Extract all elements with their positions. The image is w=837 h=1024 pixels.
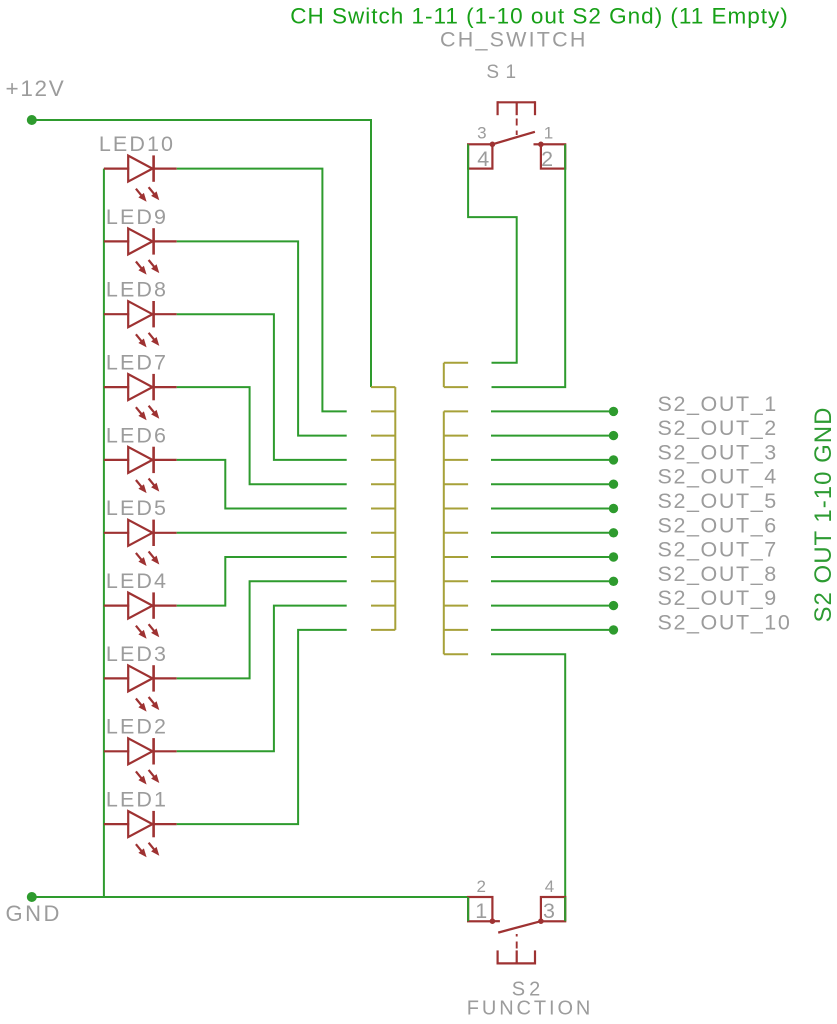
LED 4 (diode symbol with light arrows) bbox=[104, 604, 129, 606]
svg-text:LED3: LED3 bbox=[106, 642, 168, 666]
switch S1 pole dot left (pin 3/4) bbox=[490, 142, 496, 148]
svg-text:S2_OUT_1: S2_OUT_1 bbox=[658, 392, 778, 416]
LED 5 (diode symbol with light arrows) bbox=[104, 532, 129, 534]
svg-text:S2_OUT_3: S2_OUT_3 bbox=[658, 440, 778, 464]
svg-text:1: 1 bbox=[475, 899, 487, 923]
switch S1 pin box 1/2 (right) bbox=[541, 144, 565, 168]
wire S2_OUT_6 from switch contact bbox=[491, 532, 614, 534]
wire +12V rail to switch contact 11 (top) bbox=[32, 120, 371, 387]
switch S2 pole dot left (pin 2/1) bbox=[490, 918, 496, 924]
wire S2_OUT_9 from switch contact bbox=[491, 605, 614, 607]
wire LED2 cathode to switch contact 9 bbox=[177, 606, 347, 752]
wire S2_OUT_1 from switch contact bbox=[491, 410, 614, 412]
svg-text:FUNCTION: FUNCTION bbox=[467, 998, 594, 1020]
svg-text:CH_SWITCH: CH_SWITCH bbox=[440, 27, 588, 51]
wire S2_OUT_8 from switch contact bbox=[491, 580, 614, 582]
svg-text:4: 4 bbox=[477, 147, 489, 171]
switch S2 actuator dashed link bbox=[516, 934, 518, 949]
svg-text:LED1: LED1 bbox=[106, 788, 168, 812]
svg-text:S2_OUT_10: S2_OUT_10 bbox=[658, 610, 792, 634]
svg-text:GND: GND bbox=[6, 901, 62, 926]
switch S2 pin box 2/1 (left) bbox=[468, 897, 492, 921]
svg-text:3: 3 bbox=[477, 124, 486, 143]
node S2_OUT_2 (net endpoint dot) bbox=[609, 431, 618, 440]
svg-text:S2_OUT_8: S2_OUT_8 bbox=[658, 562, 778, 586]
svg-text:LED4: LED4 bbox=[106, 569, 168, 593]
node S2_OUT_5 (net endpoint dot) bbox=[609, 504, 618, 513]
wire LED4 cathode to switch contact 7 bbox=[177, 557, 347, 606]
connector/contact comb left (rotary switch side A, pins 11x) bbox=[371, 386, 395, 388]
switch S1 lever (movable contact) bbox=[492, 132, 535, 145]
wire LED5 cathode to switch contact 6 bbox=[177, 532, 347, 534]
switch S1 pin box 3/4 (left) bbox=[468, 144, 492, 168]
wire S1 pin 4 to switch common pole A bbox=[468, 144, 517, 362]
node S2_OUT_3 (net endpoint dot) bbox=[609, 455, 618, 464]
wire GND net overlay on S2 pin-1 box left edge bbox=[467, 897, 469, 921]
wire LED8 cathode to switch contact 3 bbox=[177, 314, 347, 460]
wire S2_OUT_3 from switch contact bbox=[491, 459, 614, 461]
wire GND bus for LED anodes (vertical) bbox=[103, 169, 105, 897]
svg-text:LED8: LED8 bbox=[106, 278, 168, 302]
node S2_OUT_6 (net endpoint dot) bbox=[609, 528, 618, 537]
LED 9 (diode symbol with light arrows) bbox=[104, 240, 129, 242]
wire S2_OUT_5 from switch contact bbox=[491, 508, 614, 510]
wire S2_OUT_2 from switch contact bbox=[491, 435, 614, 437]
svg-text:CH Switch 1-11 (1-10 out S2 Gn: CH Switch 1-11 (1-10 out S2 Gnd) (11 Emp… bbox=[290, 3, 789, 28]
node S2_OUT_7 (net endpoint dot) bbox=[609, 552, 618, 561]
svg-text:4: 4 bbox=[545, 877, 554, 896]
connector/contact comb right common pins (rotary switch poles) bbox=[444, 362, 468, 364]
LED 10 (diode symbol with light arrows) bbox=[104, 168, 129, 170]
wire GND rail to switch S2 pin 1 bbox=[32, 897, 468, 921]
svg-text:LED10: LED10 bbox=[99, 132, 175, 156]
node S2_OUT_10 (net endpoint dot) bbox=[609, 625, 618, 634]
svg-text:S2_OUT_9: S2_OUT_9 bbox=[658, 586, 778, 610]
switch S2 pin box 4/3 (right) bbox=[541, 897, 565, 921]
svg-text:S2_OUT_2: S2_OUT_2 bbox=[658, 416, 778, 440]
LED 3 (diode symbol with light arrows) bbox=[104, 677, 129, 679]
svg-text:S2_OUT_6: S2_OUT_6 bbox=[658, 513, 778, 537]
svg-text:+12V: +12V bbox=[6, 76, 66, 101]
connector/contact comb right (rotary switch side B, pins 11x) bbox=[444, 410, 468, 412]
node S2_OUT_8 (net endpoint dot) bbox=[609, 577, 618, 586]
switch S2 actuator bracket bbox=[498, 962, 535, 964]
wire S1 pin 2 to switch common pole B bbox=[492, 144, 566, 387]
S2 fixed contact stub (pin 1 side) bbox=[492, 920, 500, 922]
switch S1 actuator bracket bbox=[498, 101, 535, 103]
svg-text:S2 OUT 1-10 GND: S2 OUT 1-10 GND bbox=[810, 407, 837, 623]
LED 8 (diode symbol with light arrows) bbox=[104, 313, 129, 315]
wire LED3 cathode to switch contact 8 bbox=[177, 581, 347, 678]
LED 1 (diode symbol with light arrows) bbox=[104, 823, 129, 825]
svg-text:LED5: LED5 bbox=[106, 496, 168, 520]
svg-text:2: 2 bbox=[541, 147, 553, 171]
LED 6 (diode symbol with light arrows) bbox=[104, 459, 129, 461]
svg-text:S1: S1 bbox=[486, 62, 522, 83]
svg-text:S2_OUT_4: S2_OUT_4 bbox=[658, 465, 778, 489]
switch S2 lever (movable contact) bbox=[498, 921, 541, 932]
svg-text:LED6: LED6 bbox=[106, 423, 168, 447]
node GND (net origin dot) bbox=[27, 892, 37, 902]
node S2_OUT_9 (net endpoint dot) bbox=[609, 601, 618, 610]
wire LED6 cathode to switch contact 5 bbox=[177, 460, 347, 509]
wire S2_OUT_7 from switch contact bbox=[491, 556, 614, 558]
svg-text:1: 1 bbox=[544, 124, 553, 143]
switch S1 actuator dashed link bbox=[516, 119, 518, 136]
wire LED7 cathode to switch contact 4 bbox=[177, 387, 347, 484]
wire LED9 cathode to switch contact 2 bbox=[177, 241, 347, 435]
wire switch contact 11 (side B) to S2 pin 3 bbox=[491, 654, 565, 921]
node S2_OUT_1 (net endpoint dot) bbox=[609, 407, 618, 416]
svg-text:LED9: LED9 bbox=[106, 205, 168, 229]
wire S2_OUT_4 from switch contact bbox=[491, 483, 614, 485]
S1 fixed contact stub (pin 1 side) bbox=[534, 143, 541, 145]
node +12V (net origin dot) bbox=[27, 115, 37, 125]
svg-text:LED7: LED7 bbox=[106, 351, 168, 375]
svg-text:3: 3 bbox=[543, 899, 555, 923]
svg-text:LED2: LED2 bbox=[106, 715, 168, 739]
svg-text:S2_OUT_7: S2_OUT_7 bbox=[658, 538, 778, 562]
svg-text:S2_OUT_5: S2_OUT_5 bbox=[658, 489, 778, 513]
wire contact-11 net overlay on S2 pin-3 box right edge bbox=[564, 897, 566, 921]
node S2_OUT_4 (net endpoint dot) bbox=[609, 480, 618, 489]
svg-text:2: 2 bbox=[476, 877, 485, 896]
switch S2 pole dot right (pin 4/3) bbox=[538, 918, 544, 924]
wire S2_OUT_10 from switch contact bbox=[491, 629, 614, 631]
LED 2 (diode symbol with light arrows) bbox=[104, 750, 129, 752]
LED 7 (diode symbol with light arrows) bbox=[104, 386, 129, 388]
wire LED1 cathode to switch contact 10 bbox=[177, 630, 347, 824]
switch S1 pole dot right (pin 1/2) bbox=[538, 142, 544, 148]
wire LED10 cathode to switch contact 1 bbox=[177, 169, 347, 412]
